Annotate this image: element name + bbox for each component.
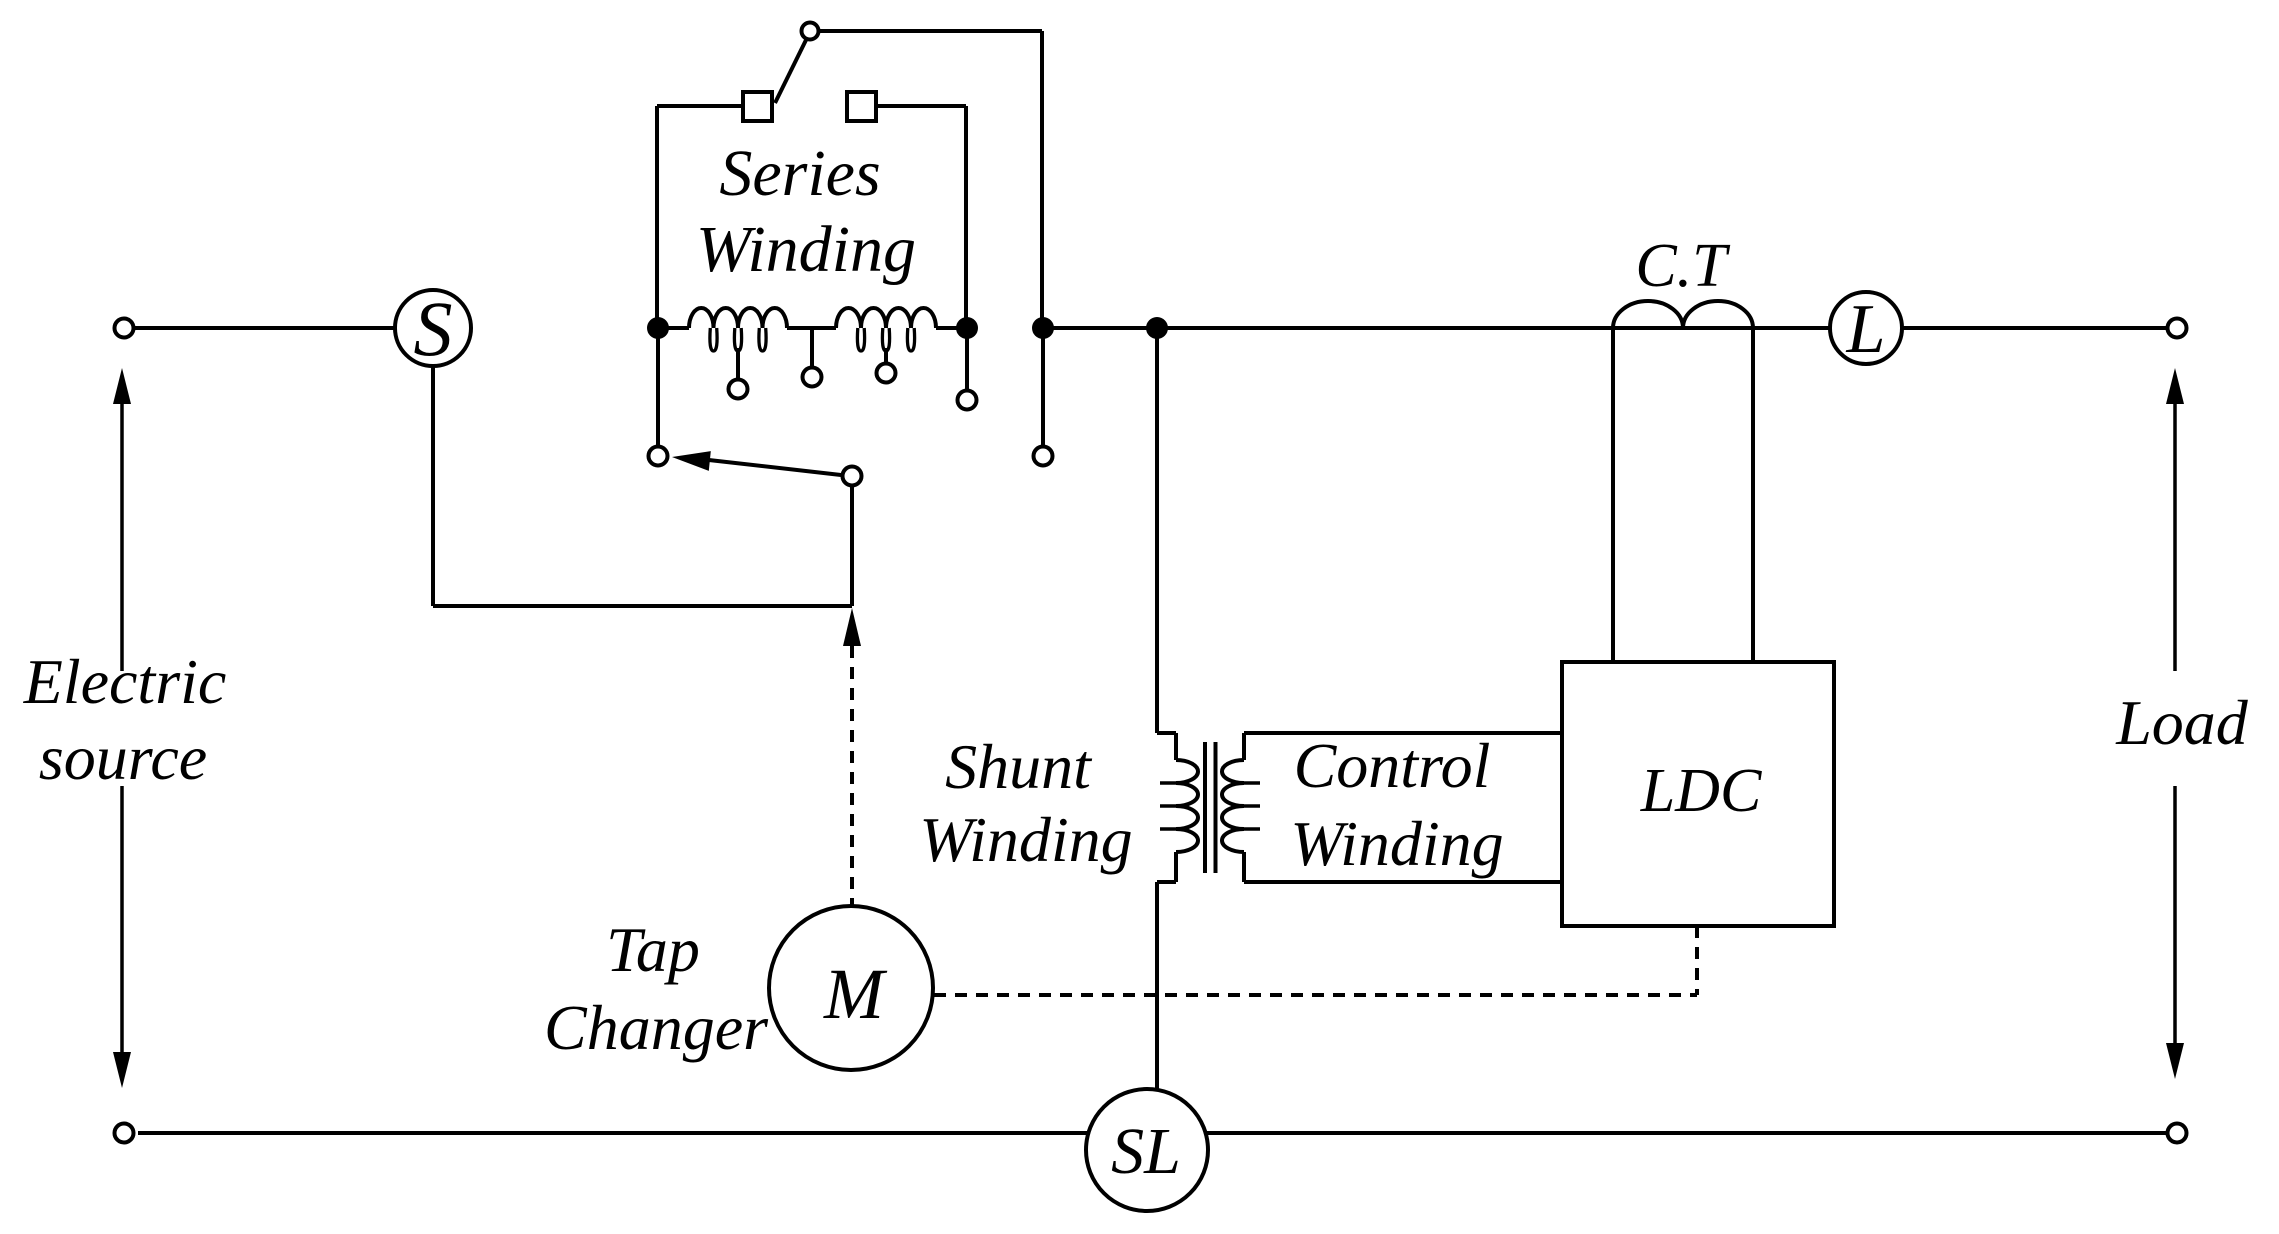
- svg-text:Control: Control: [1294, 730, 1491, 801]
- svg-text:Tap: Tap: [606, 914, 700, 985]
- svg-text:S: S: [414, 285, 453, 372]
- svg-text:Electric: Electric: [23, 646, 227, 717]
- svg-text:L: L: [1846, 291, 1886, 368]
- svg-text:source: source: [39, 722, 207, 793]
- svg-text:Series: Series: [719, 137, 880, 210]
- svg-text:Winding: Winding: [696, 213, 916, 286]
- svg-text:Winding: Winding: [919, 804, 1132, 875]
- svg-text:Changer: Changer: [544, 992, 769, 1063]
- svg-text:Load: Load: [2115, 687, 2249, 758]
- svg-text:M: M: [823, 954, 888, 1034]
- svg-text:LDC: LDC: [1640, 757, 1762, 825]
- svg-text:Winding: Winding: [1290, 808, 1503, 879]
- svg-text:Shunt: Shunt: [945, 731, 1093, 802]
- svg-text:SL: SL: [1111, 1115, 1181, 1188]
- svg-text:C.T: C.T: [1635, 232, 1731, 300]
